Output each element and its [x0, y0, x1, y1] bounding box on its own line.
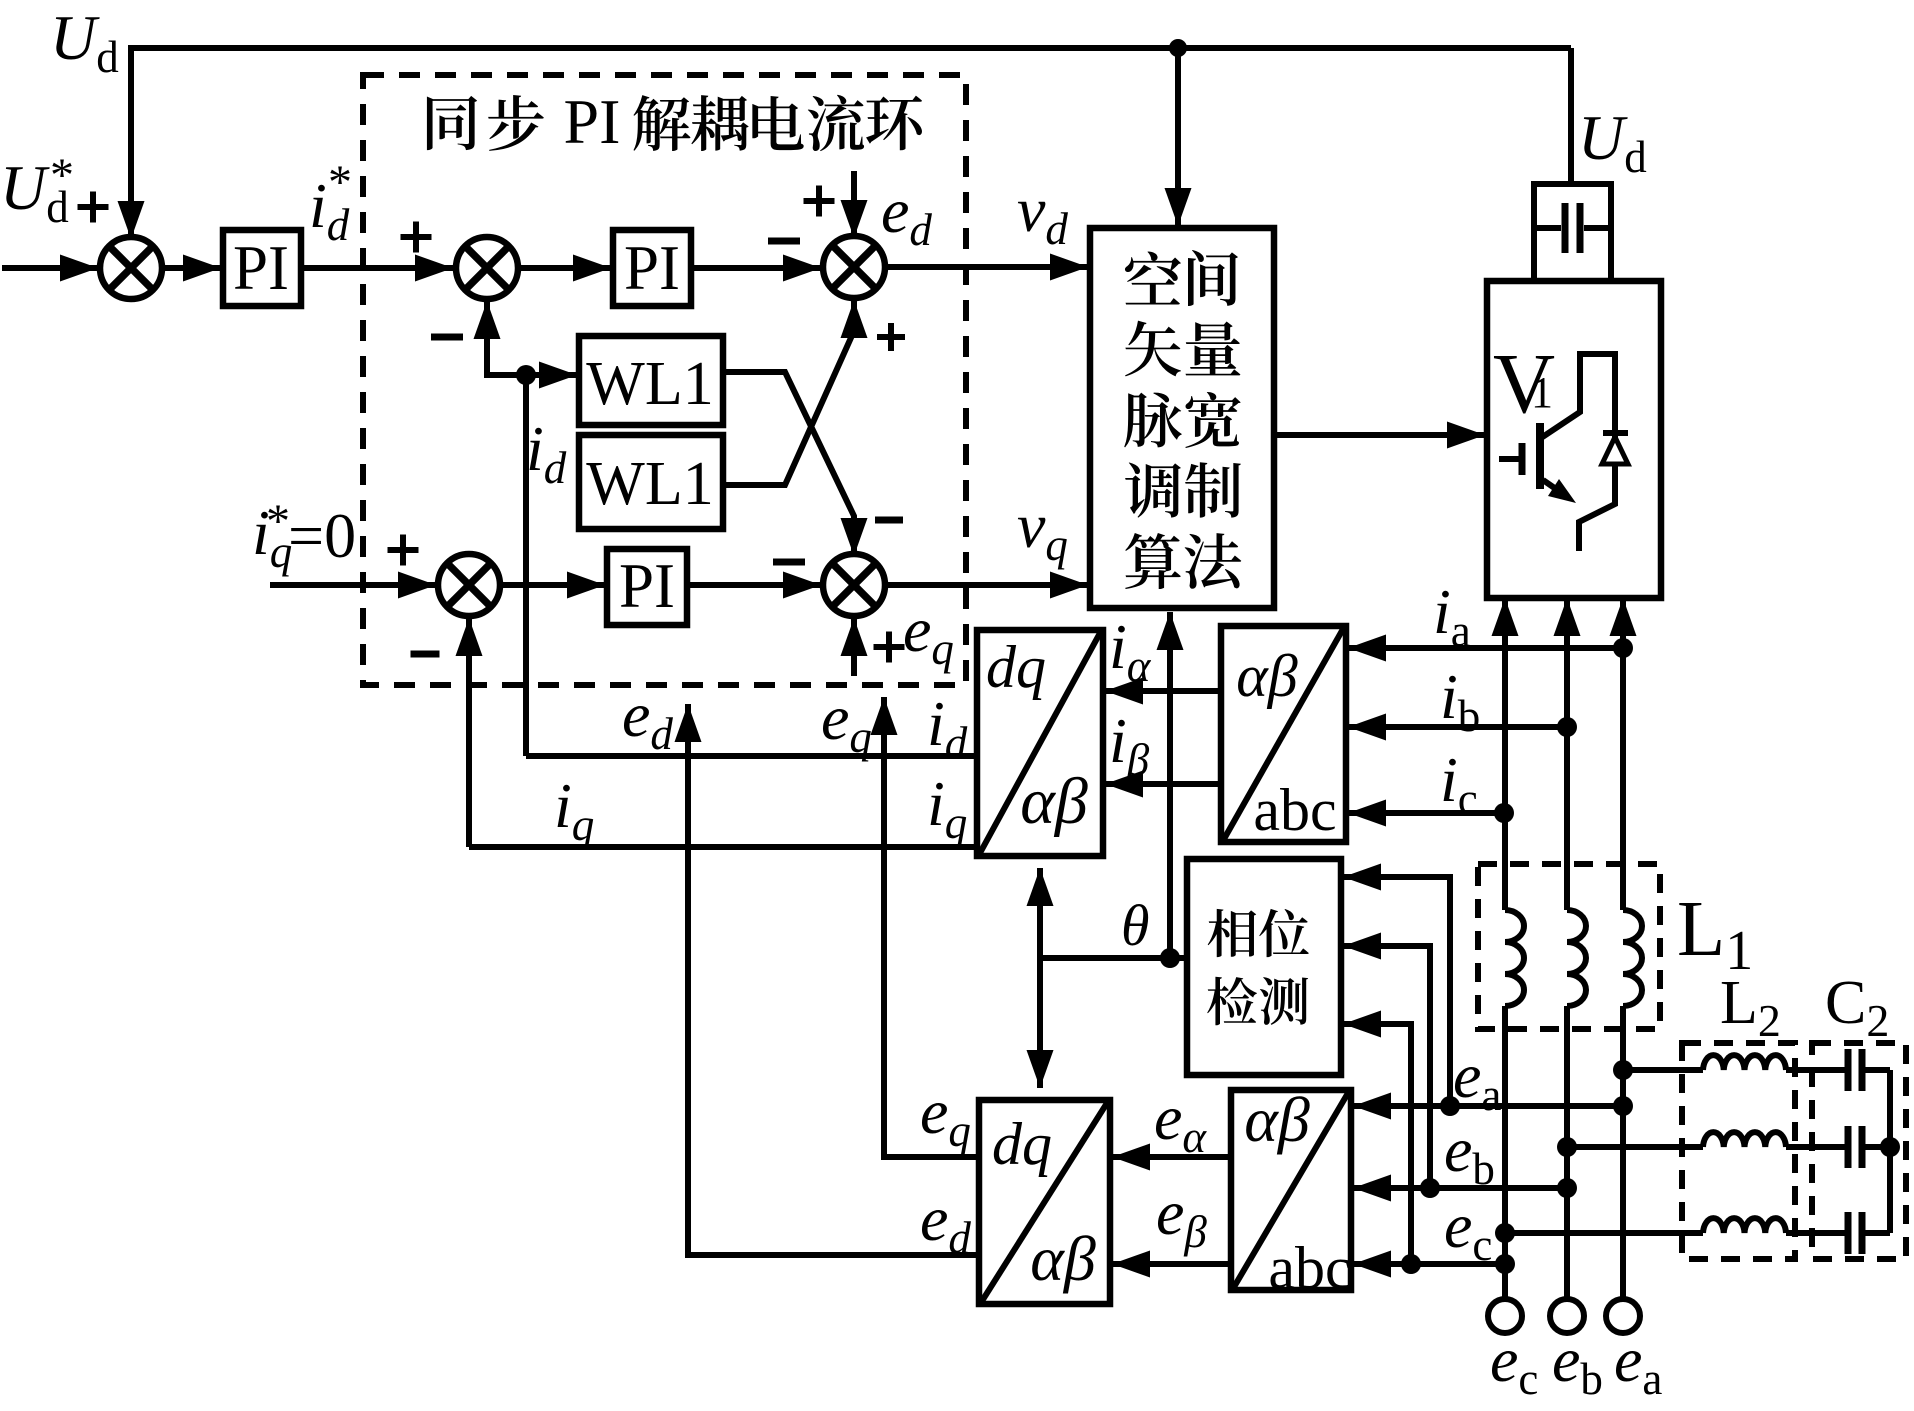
summing junction S2 (id loop) — [456, 237, 518, 299]
terminal ec source — [1488, 1299, 1522, 1333]
block SVPWM algorithm — [1090, 228, 1274, 608]
label e-alpha — [1154, 1082, 1207, 1162]
label e-beta — [1156, 1177, 1207, 1257]
svg-text:WL1: WL1 — [586, 450, 713, 518]
diode of V1 — [1602, 433, 1628, 464]
wire theta into SVPWM bottom — [1167, 612, 1173, 956]
wire id from dq1 box — [526, 753, 977, 759]
label ec — [1444, 1190, 1492, 1270]
label ed port — [920, 1183, 971, 1263]
wire vd to SVPWM — [885, 264, 1088, 270]
wire ic tap — [1348, 810, 1504, 816]
capacitor C2 phase b — [1848, 1126, 1890, 1168]
wire PI1 to S2 (id*) — [301, 265, 453, 271]
wire eq feedforward into S5 bottom — [851, 618, 857, 676]
dashed box L1 — [1478, 864, 1660, 1029]
sign plus feedforward S3 — [804, 186, 835, 217]
wire theta down into dq2 — [1037, 958, 1043, 1088]
label dq upper box — [986, 634, 1046, 700]
sign minus at S5 top — [875, 517, 903, 524]
label C2 — [1825, 969, 1889, 1046]
summing junction S5 (eq) — [823, 554, 885, 616]
transistor V1 IGBT symbol — [1499, 354, 1615, 551]
sign minus at S2 bottom — [431, 334, 463, 341]
title chars 解耦电流环 — [633, 95, 922, 151]
label id on vertical wire — [526, 413, 567, 493]
label =0 — [288, 500, 356, 571]
svg-text:αβ: αβ — [1236, 643, 1297, 709]
node ic tap — [1494, 803, 1514, 823]
node ea on phase a — [1613, 1096, 1633, 1116]
label i-beta — [1109, 705, 1150, 785]
label vq — [1017, 490, 1068, 570]
label eb — [1444, 1114, 1495, 1194]
label id* — [309, 170, 350, 250]
wire S2 to PI2 — [518, 265, 611, 271]
wire WL1a output cross to S5 — [723, 372, 854, 556]
wire ea to PLL — [1343, 877, 1450, 1106]
label Ud top-left — [50, 2, 119, 82]
svg-text:abc: abc — [1253, 777, 1336, 843]
wire iq* input — [270, 582, 436, 588]
wire e-alpha — [1112, 1154, 1231, 1160]
block WL1 upper (cross coupling) — [579, 336, 723, 425]
label eq feedback arrow — [821, 682, 872, 762]
wire S4 to PI3 — [500, 582, 605, 588]
wire vq to SVPWM — [885, 582, 1088, 588]
wire phase a with arrow into V1 — [1620, 598, 1626, 910]
label abc abc-box2 — [1268, 1235, 1351, 1301]
inductor L1 phase b coil — [1567, 910, 1586, 1299]
wire ed feedback from dq2 — [688, 704, 977, 1255]
summing junction S1 (voltage loop) — [100, 237, 162, 299]
label ab abc-box — [1236, 643, 1297, 709]
capacitor C2 phase a — [1848, 1049, 1890, 1091]
label ed at S3 — [881, 175, 932, 255]
wire PI3 to S5 — [687, 582, 821, 588]
wire WL1b output cross to S3 — [723, 300, 854, 485]
wire C2 neutral bus — [1887, 1070, 1893, 1233]
node eb on phase b — [1557, 1178, 1577, 1198]
wire Ud down into summer S1 — [128, 45, 134, 239]
label iq port — [927, 768, 967, 848]
dashed box L2 — [1682, 1043, 1795, 1259]
svg-text:dq: dq — [986, 634, 1046, 700]
sign plus at S5 bottom — [874, 632, 905, 663]
wire theta up into dq1 — [1037, 868, 1043, 958]
label ea — [1453, 1040, 1501, 1120]
node ib tap — [1557, 717, 1577, 737]
terminal eb source — [1550, 1299, 1584, 1333]
block phase detection PLL — [1187, 859, 1341, 1075]
svg-text:αβ: αβ — [1030, 1223, 1096, 1294]
label ic — [1440, 744, 1478, 824]
label ia — [1433, 576, 1471, 656]
wire ea tap — [1353, 1103, 1623, 1109]
sign plus at S2 — [401, 222, 432, 253]
wire Ud top feedback — [131, 45, 1571, 51]
label eb bottom — [1552, 1324, 1603, 1404]
wire eb tap — [1353, 1185, 1567, 1191]
text 检测 — [1207, 977, 1308, 1026]
wire ib tap — [1348, 724, 1567, 730]
capacitor Ud dc-link — [1531, 48, 1614, 281]
label ab abc-box2 — [1244, 1084, 1310, 1155]
node ea riser — [1440, 1096, 1460, 1116]
wire i-alpha — [1105, 688, 1221, 694]
svg-text:*: * — [50, 149, 74, 202]
sign plus at S4 — [388, 535, 419, 566]
title PI — [564, 86, 621, 157]
inductor L2 phase a — [1613, 1055, 1845, 1080]
dashed box C2 — [1812, 1043, 1906, 1259]
wire ed feedforward into S3 top — [851, 171, 857, 238]
label ib — [1440, 661, 1480, 741]
wire id into WL1a — [526, 372, 577, 378]
node Ud-SVPWM tap — [1169, 39, 1187, 57]
wire e-beta — [1112, 1261, 1231, 1267]
label ab lower box — [1030, 1223, 1096, 1294]
label theta — [1121, 893, 1150, 958]
text 相位 — [1208, 909, 1309, 957]
inductor L2 phase c — [1495, 1218, 1845, 1243]
sign minus at S4 bottom — [411, 651, 440, 658]
node C2 neutral — [1880, 1137, 1900, 1157]
label eq at S5 — [903, 594, 954, 674]
block dq/alphabeta transform lower — [979, 1100, 1110, 1304]
sign minus before S3 — [768, 238, 800, 245]
label PI3 — [619, 551, 675, 621]
label dq lower box — [992, 1111, 1052, 1177]
label iq on wire — [554, 770, 594, 850]
wire ia tap — [1348, 645, 1623, 651]
wire S1 to PI1 — [162, 265, 221, 271]
block alphabeta/abc transform lower — [1231, 1090, 1351, 1290]
node id branch — [516, 365, 536, 385]
asterisk id* — [328, 156, 352, 209]
svg-text:PI: PI — [233, 233, 289, 303]
svg-text:PI: PI — [619, 551, 675, 621]
terminal ea source — [1606, 1299, 1640, 1333]
label V1 subscript — [1531, 368, 1553, 417]
block dq/alphabeta transform upper — [977, 630, 1103, 856]
asterisk Ud* — [50, 149, 74, 202]
block PI3 q-current regulator — [607, 549, 687, 625]
svg-text:αβ: αβ — [1244, 1084, 1310, 1155]
inductor L1 phase a coil — [1623, 910, 1642, 1299]
svg-text:PI: PI — [624, 233, 680, 303]
block V1 converter bridge — [1487, 281, 1661, 598]
node theta branch — [1160, 948, 1180, 968]
sign plus at S1 — [78, 192, 109, 223]
label iq*=0 — [252, 497, 292, 577]
label i-alpha — [1109, 611, 1152, 691]
inductor L1 phase c coil — [1505, 910, 1524, 1299]
node ia tap — [1613, 638, 1633, 658]
block PI1 voltage regulator — [223, 230, 301, 306]
wire i-beta — [1105, 781, 1221, 787]
label PI1 — [233, 233, 289, 303]
title chars 同步 — [427, 95, 544, 151]
label V1 — [1493, 335, 1555, 431]
label WL1b — [586, 450, 713, 518]
label PI2 — [624, 233, 680, 303]
label ea bottom — [1614, 1324, 1662, 1404]
asterisk iq* — [266, 495, 290, 548]
wire eb to PLL — [1343, 946, 1430, 1188]
wire ec to PLL — [1343, 1024, 1411, 1264]
wire iq from dq1 box — [469, 844, 977, 850]
summing junction S4 (iq loop) — [438, 554, 500, 616]
svg-text:*: * — [266, 495, 290, 548]
svg-text:dq: dq — [992, 1111, 1052, 1177]
label ed feedback arrow — [622, 679, 673, 759]
svg-text:=0: =0 — [288, 500, 356, 571]
wire ec tap — [1353, 1261, 1505, 1267]
wire id vertical down — [523, 375, 529, 756]
svg-text:θ: θ — [1121, 893, 1150, 958]
node eb riser — [1420, 1178, 1440, 1198]
label eq port — [920, 1076, 971, 1156]
label Ud right — [1578, 102, 1647, 182]
wire eq feedback from dq2 — [884, 697, 977, 1157]
wire id up into S2 bottom — [487, 301, 526, 375]
svg-text:*: * — [328, 156, 352, 209]
svg-text:1: 1 — [1531, 368, 1553, 417]
label vd — [1017, 174, 1068, 254]
label L1 — [1677, 886, 1753, 982]
wire phase b with arrow into V1 — [1564, 598, 1570, 910]
capacitor C2 phase c — [1848, 1212, 1890, 1254]
wire phase c with arrow into V1 — [1502, 598, 1508, 910]
wire theta out of PLL — [1040, 955, 1187, 961]
node ec riser — [1401, 1254, 1421, 1274]
wire Ud* input arrow — [2, 265, 98, 271]
svg-text:abc: abc — [1268, 1235, 1351, 1301]
node ec on phase c — [1495, 1254, 1515, 1274]
summing junction S3 (ed) — [823, 236, 885, 298]
label Ud* reference — [0, 152, 69, 232]
block alphabeta/abc transform upper — [1221, 626, 1346, 842]
dashed box synchronous PI decoupled current loop — [363, 75, 966, 685]
wire PI2 to S3 — [691, 265, 821, 271]
svg-text:WL1: WL1 — [586, 350, 713, 418]
label ab upper box — [1020, 765, 1088, 838]
sign plus at S3 bottom — [877, 323, 905, 351]
label WL1a — [586, 350, 713, 418]
sign minus before S5 — [773, 559, 805, 566]
svg-text:αβ: αβ — [1020, 765, 1088, 838]
text SVPWM chinese — [1124, 250, 1241, 589]
wire iq up into S4 bottom — [466, 618, 472, 847]
label abc abc-box — [1253, 777, 1336, 843]
block PI2 d-current regulator — [613, 230, 691, 306]
block WL1 lower (cross coupling) — [579, 435, 723, 529]
inductor L2 phase b — [1557, 1132, 1845, 1157]
svg-text:PI: PI — [564, 86, 621, 157]
wire SVPWM to V1 gate — [1274, 432, 1485, 438]
label L2 — [1720, 969, 1781, 1046]
wire Ud into SVPWM top — [1175, 48, 1181, 226]
label id port — [927, 688, 968, 768]
label ec bottom — [1490, 1324, 1538, 1404]
